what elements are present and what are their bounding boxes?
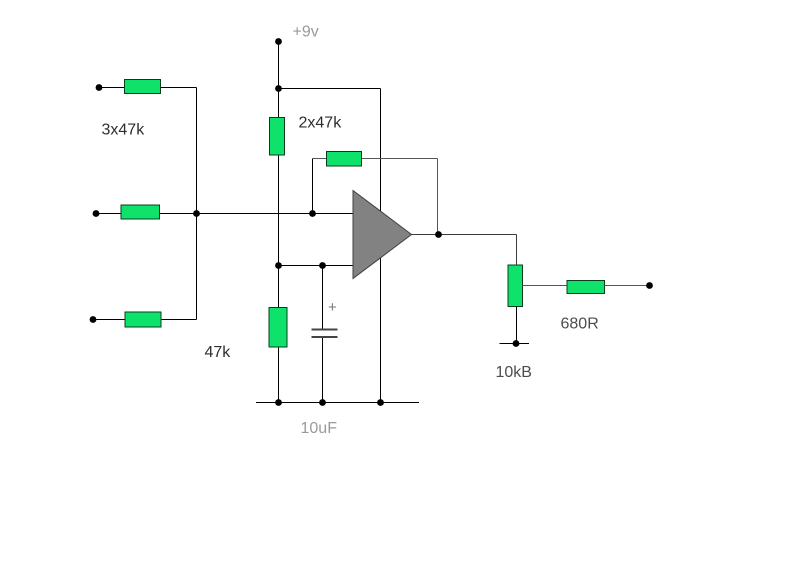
svg-text:10uF: 10uF <box>301 420 338 437</box>
node input 1 terminal <box>96 84 103 91</box>
wire input row 3 <box>93 319 197 321</box>
wire feedback right drop <box>437 159 439 235</box>
capacitor C1 top plate <box>312 329 338 331</box>
wire output terminal lead <box>605 285 650 287</box>
wire input row 1 <box>99 87 197 89</box>
resistor R2 47k (input 2) <box>121 205 160 219</box>
wire feedback top horizontal <box>313 158 438 160</box>
junction output node <box>435 231 442 238</box>
node input 2 terminal <box>93 210 100 217</box>
op-amp U1 <box>353 191 412 279</box>
svg-text:47k: 47k <box>205 344 232 361</box>
resistor R4 2x47k (bias upper) <box>270 118 285 156</box>
wire capacitor top lead <box>322 266 324 330</box>
wire top rail horizontal <box>279 88 381 90</box>
resistor VR1 10kB pot <box>508 265 523 307</box>
node input 3 terminal <box>90 316 97 323</box>
junction bus / input node <box>193 210 200 217</box>
wire capacitor bottom lead <box>322 338 324 403</box>
junction rail-supply <box>275 399 282 406</box>
ground <box>500 343 530 345</box>
wire feedback left drop <box>312 159 314 214</box>
wire op-amp power vertical <box>380 89 382 403</box>
resistor R6 47k (bias lower) <box>269 308 287 348</box>
wire pot bottom lead <box>516 307 518 344</box>
wire inverting input row <box>279 265 354 267</box>
junction ground dot <box>513 340 520 347</box>
junction rail-capacitor <box>319 399 326 406</box>
wire +9v supply vertical <box>278 42 280 403</box>
svg-text:3x47k: 3x47k <box>102 122 146 139</box>
junction bias node <box>275 262 282 269</box>
svg-text:10kB: 10kB <box>496 364 532 381</box>
capacitor C1 bottom plate <box>312 336 338 338</box>
wire output drop to pot <box>516 235 518 266</box>
wire bottom ground rail <box>256 402 419 404</box>
junction feedback / input node <box>309 210 316 217</box>
svg-text:2x47k: 2x47k <box>299 115 343 132</box>
resistor R5 feedback <box>327 152 362 167</box>
svg-text:680R: 680R <box>561 316 599 333</box>
wire pot wiper <box>523 285 568 287</box>
resistor R7 680R <box>567 281 605 294</box>
junction rail-opamp <box>377 399 384 406</box>
node output terminal <box>646 282 653 289</box>
resistor R1 47k (input 1) <box>125 80 161 94</box>
svg-text:+: + <box>328 299 337 316</box>
junction capacitor tap <box>319 262 326 269</box>
wire input row 2 <box>96 213 353 215</box>
wire op-amp output <box>412 234 517 236</box>
node +9v terminal <box>275 38 282 45</box>
wire mixing bus vertical <box>196 88 198 320</box>
svg-text:+9v: +9v <box>293 24 319 41</box>
resistor R3 47k (input 3) <box>125 312 161 327</box>
junction supply top rail <box>275 85 282 92</box>
